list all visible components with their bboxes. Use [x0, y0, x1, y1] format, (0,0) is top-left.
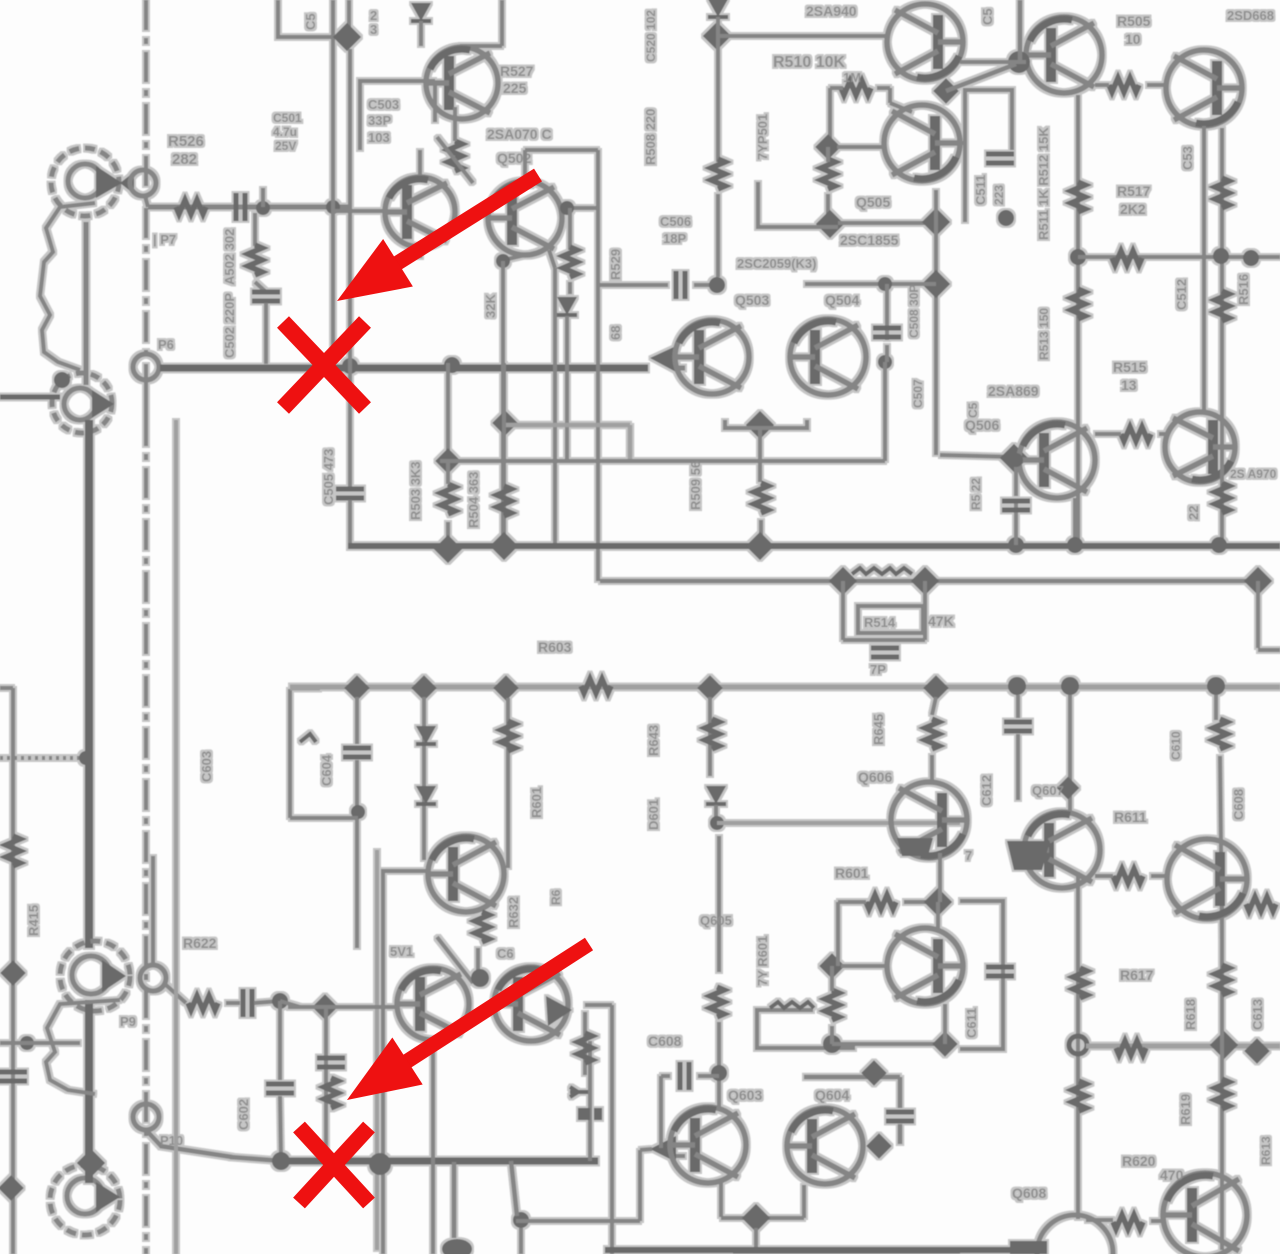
svg-text:Q607: Q607 — [1032, 783, 1064, 798]
svg-text:R645: R645 — [871, 714, 886, 745]
svg-text:1M: 1M — [843, 70, 861, 85]
svg-text:R505: R505 — [1117, 13, 1151, 29]
svg-text:32K: 32K — [483, 294, 498, 318]
svg-text:R620: R620 — [1122, 1153, 1156, 1169]
svg-text:Q604: Q604 — [815, 1087, 849, 1103]
svg-text:R601: R601 — [529, 787, 544, 818]
svg-text:C602: C602 — [236, 1099, 251, 1130]
svg-text:C506: C506 — [660, 214, 691, 229]
svg-text:C611: C611 — [964, 1008, 979, 1038]
svg-text:25V: 25V — [275, 139, 296, 153]
svg-text:C501: C501 — [273, 111, 302, 125]
svg-text:7P: 7P — [870, 662, 886, 677]
svg-text:R510 10K: R510 10K — [773, 54, 845, 71]
svg-text:470: 470 — [1160, 1167, 1184, 1183]
svg-text:C503: C503 — [368, 97, 399, 112]
svg-text:R603: R603 — [538, 639, 572, 655]
svg-text:R514: R514 — [864, 615, 896, 630]
svg-text:2SA869: 2SA869 — [988, 383, 1039, 399]
svg-text:2SC1855: 2SC1855 — [840, 232, 899, 248]
svg-text:R504 363: R504 363 — [466, 472, 481, 528]
svg-text:A502 302: A502 302 — [222, 229, 237, 285]
svg-text:C610: C610 — [1169, 731, 1183, 760]
svg-text:2K2: 2K2 — [1120, 201, 1146, 217]
svg-text:C5: C5 — [966, 402, 980, 418]
svg-text:7: 7 — [965, 848, 972, 863]
svg-text:R529: R529 — [608, 249, 623, 280]
svg-text:R415: R415 — [26, 905, 41, 936]
svg-text:R511 1K R512 15K: R511 1K R512 15K — [1036, 127, 1051, 240]
svg-text:R619: R619 — [1178, 1094, 1193, 1125]
svg-text:R632: R632 — [506, 897, 521, 928]
svg-text:Q608: Q608 — [1012, 1185, 1046, 1201]
svg-text:R503 3K3: R503 3K3 — [408, 461, 423, 520]
svg-text:4.7u: 4.7u — [273, 125, 297, 139]
svg-text:103: 103 — [368, 130, 390, 145]
svg-text:D601: D601 — [646, 799, 661, 830]
svg-text:C505 473: C505 473 — [321, 449, 336, 505]
svg-text:Q506: Q506 — [965, 417, 999, 433]
svg-text:C6: C6 — [497, 946, 514, 961]
svg-text:R6: R6 — [549, 889, 563, 905]
svg-text:C5: C5 — [980, 8, 995, 25]
svg-text:10: 10 — [1125, 31, 1141, 47]
svg-text:2SC2059(K3): 2SC2059(K3) — [737, 256, 817, 271]
svg-text:C512: C512 — [1174, 279, 1189, 310]
svg-text:C608: C608 — [648, 1033, 682, 1049]
svg-text:R5 22: R5 22 — [969, 478, 983, 510]
svg-text:Q505: Q505 — [856, 194, 890, 210]
svg-text:P6: P6 — [158, 337, 174, 352]
svg-text:R517: R517 — [1117, 183, 1151, 199]
svg-text:R613: R613 — [1259, 1136, 1273, 1165]
svg-text:R508 220: R508 220 — [643, 109, 658, 165]
svg-text:R622: R622 — [183, 935, 217, 951]
svg-text:R526: R526 — [168, 133, 204, 150]
svg-text:C608: C608 — [1231, 789, 1246, 820]
svg-text:C604: C604 — [319, 754, 334, 786]
svg-text:18P: 18P — [663, 231, 686, 246]
svg-text:R527: R527 — [500, 63, 534, 79]
svg-text:2S A970: 2S A970 — [1230, 467, 1277, 481]
svg-text:Q605: Q605 — [700, 913, 732, 928]
svg-text:Q603: Q603 — [728, 1087, 762, 1103]
svg-text:C508 30P: C508 30P — [907, 285, 921, 338]
svg-text:R611: R611 — [1114, 809, 1147, 825]
svg-text:33P: 33P — [368, 113, 391, 128]
svg-text:C53: C53 — [1180, 146, 1195, 170]
svg-text:R516: R516 — [1236, 274, 1251, 305]
svg-text:Q504: Q504 — [825, 292, 859, 308]
svg-text:P10: P10 — [160, 1133, 183, 1148]
svg-text:2SA070 C: 2SA070 C — [487, 126, 552, 142]
svg-text:2SD668: 2SD668 — [1227, 8, 1274, 23]
svg-text:C511: C511 — [973, 175, 988, 205]
svg-text:R601: R601 — [835, 865, 869, 881]
svg-text:2: 2 — [370, 8, 377, 23]
svg-text:R515: R515 — [1113, 359, 1147, 375]
svg-text:282: 282 — [172, 151, 197, 168]
svg-text:R643: R643 — [646, 725, 661, 756]
svg-text:C613: C613 — [1250, 999, 1265, 1030]
svg-text:68: 68 — [608, 326, 623, 340]
svg-text:Q503: Q503 — [735, 292, 769, 308]
svg-text:223: 223 — [992, 185, 1006, 205]
svg-text:47K: 47K — [928, 613, 954, 629]
svg-text:5V1: 5V1 — [390, 944, 413, 959]
svg-text:R513 150: R513 150 — [1037, 308, 1051, 360]
svg-text:3: 3 — [370, 22, 377, 37]
svg-text:P9: P9 — [120, 1014, 136, 1029]
svg-text:22: 22 — [1186, 506, 1201, 520]
svg-text:225: 225 — [503, 80, 527, 96]
svg-text:C5: C5 — [303, 13, 318, 30]
svg-text:R509 56: R509 56 — [688, 461, 703, 510]
svg-text:| P7: | P7 — [153, 232, 176, 247]
svg-text:C507: C507 — [911, 379, 925, 408]
svg-text:R617: R617 — [1120, 967, 1154, 983]
svg-text:R618: R618 — [1183, 999, 1198, 1030]
svg-text:C603: C603 — [199, 751, 214, 782]
svg-text:C502 220P: C502 220P — [222, 293, 237, 358]
svg-text:13: 13 — [1121, 377, 1137, 393]
svg-text:C520 102: C520 102 — [644, 10, 658, 62]
svg-text:2SA940: 2SA940 — [806, 3, 857, 19]
svg-text:7YP501: 7YP501 — [755, 114, 770, 160]
svg-text:C612: C612 — [979, 775, 994, 806]
svg-text:Q606: Q606 — [858, 769, 892, 785]
svg-text:7Y R601: 7Y R601 — [755, 936, 770, 986]
